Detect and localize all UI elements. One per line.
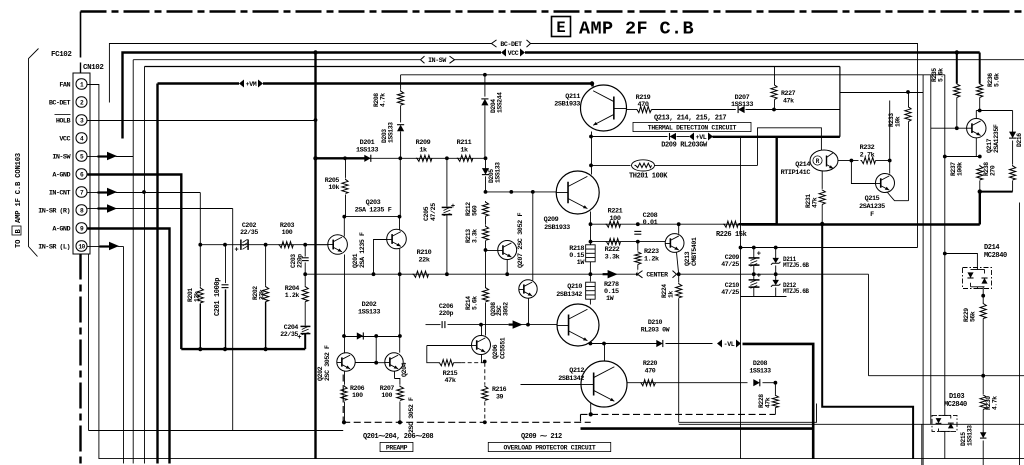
resistor R231 47k — [821, 171, 823, 189]
pin 8 IN-SR (R) — [76, 205, 87, 215]
wire y247.5 rail — [741, 247, 918, 249]
svg-text:1SS133: 1SS133 — [731, 101, 753, 109]
transistor Q210 2SB1342 — [557, 304, 599, 346]
wire Q211 collector thick — [591, 84, 593, 87]
wire mid vertical x740.5 — [740, 137, 742, 459]
wire Q212 output row — [628, 382, 748, 384]
transistor Q204 2SC3052F — [385, 353, 403, 371]
svg-text:R206: R206 — [350, 385, 365, 392]
svg-text:2SC 3052 F: 2SC 3052 F — [324, 345, 331, 381]
wire R221 rail — [591, 223, 742, 225]
svg-text:D216: D216 — [1016, 133, 1023, 147]
svg-text:C210: C210 — [725, 282, 740, 289]
diode D202 1SS133 — [345, 336, 400, 338]
wire input node line — [199, 244, 328, 246]
svg-text:47k: 47k — [783, 98, 794, 105]
pin 6 A-GND — [76, 169, 87, 179]
svg-text:AMP 2F C.B: AMP 2F C.B — [579, 19, 694, 40]
wire +VL box right edge — [839, 67, 841, 137]
resistor R232 2.7k — [850, 159, 854, 163]
wire R237/R238 join thick — [980, 191, 1013, 193]
wire D203 to Q203 emitter line — [399, 158, 401, 216]
svg-text:+: + — [757, 273, 761, 281]
ground bus — [181, 348, 305, 350]
resistor R211 1k — [457, 155, 473, 161]
wire Q213 collector up — [678, 224, 680, 234]
resistor R219 470 — [637, 106, 652, 112]
svg-text:Q209: Q209 — [544, 216, 559, 224]
wire Q207 emitter down — [506, 260, 508, 275]
transistor Q207 2SC3052F — [498, 241, 517, 260]
pin 7 IN-CNT — [76, 187, 87, 197]
wire pin6 A-GND thick — [88, 175, 182, 350]
resistor R224 1k — [678, 274, 680, 282]
resistor R206 100 — [344, 372, 346, 385]
svg-text:22/35: 22/35 — [280, 331, 298, 338]
net label IN-SW — [420, 55, 454, 64]
resistor R233 10k — [908, 93, 910, 107]
connector CN102 body — [73, 73, 90, 254]
wire output bus thick y224 — [742, 223, 980, 225]
capacitor C209 47/25 — [753, 248, 755, 259]
svg-text:+VM: +VM — [246, 81, 257, 88]
svg-text:IN-SW: IN-SW — [52, 154, 71, 162]
wire pin8 IN-SR R arrow — [98, 207, 109, 209]
resistor R226 15k — [723, 221, 738, 227]
wire Q215 emitter to R233 col — [888, 193, 909, 201]
wire top rail y74.8 — [401, 74, 945, 76]
transistor Q213 CMBT5401 — [665, 234, 684, 253]
svg-text:Q217: Q217 — [986, 138, 993, 153]
capacitor C210 47/25 — [753, 274, 755, 280]
svg-text:Q212: Q212 — [569, 367, 584, 375]
svg-text:10: 10 — [78, 243, 85, 250]
svg-text:1SS133: 1SS133 — [495, 162, 502, 183]
svg-text:FAN: FAN — [59, 82, 70, 90]
svg-text:F: F — [870, 211, 874, 219]
svg-text:470: 470 — [637, 101, 648, 109]
svg-text:OVERLOAD PROTECTOR CIRCUIT: OVERLOAD PROTECTOR CIRCUIT — [504, 444, 596, 451]
net label +VM — [239, 79, 263, 88]
svg-text:100: 100 — [609, 215, 620, 223]
pin 1 FAN — [76, 79, 87, 89]
boxed label OVERLOAD PROTECTOR CIRCUIT — [488, 442, 610, 451]
svg-text:FC102: FC102 — [51, 51, 72, 59]
wire Q207 base — [486, 250, 498, 252]
wire Q209 collector — [591, 172, 593, 175]
svg-text:47k: 47k — [765, 397, 772, 408]
wire Q209 emitter down — [590, 212, 592, 245]
wire Q208 collector up — [532, 192, 534, 281]
wire Q211 base row — [627, 109, 637, 111]
svg-text:MC2840: MC2840 — [944, 401, 967, 409]
wire Q209 base line — [486, 191, 557, 193]
svg-text:-VL: -VL — [724, 341, 735, 348]
svg-text:2SB1933: 2SB1933 — [544, 224, 570, 232]
wire Q206 base — [427, 345, 472, 347]
svg-text:1.2k: 1.2k — [285, 292, 300, 299]
svg-text:2SB1342: 2SB1342 — [556, 291, 582, 299]
resistor R209 1k — [416, 155, 432, 161]
svg-text:47/25: 47/25 — [721, 261, 739, 268]
svg-text:B: B — [15, 229, 23, 234]
pin 10 IN-SR (L) — [76, 241, 87, 251]
svg-text:IN-SR (R): IN-SR (R) — [38, 208, 70, 216]
svg-text:D208: D208 — [753, 360, 768, 367]
capacitor C204 22/35 — [301, 325, 311, 327]
capacitor C203 220p — [304, 245, 306, 257]
resistor R214 5.6k — [485, 251, 487, 288]
wire R237 top rail — [945, 156, 980, 158]
resistor R207 100 — [394, 371, 396, 378]
svg-text:100: 100 — [282, 229, 293, 236]
wire Q217 collector — [975, 138, 977, 157]
bottom wire FAN run — [88, 85, 1024, 459]
svg-text:22/35: 22/35 — [240, 229, 258, 236]
svg-text:1SS133: 1SS133 — [388, 122, 395, 143]
wire Q201 collector down — [344, 255, 346, 354]
diode D201 1SS133 — [364, 155, 371, 162]
svg-text:RL203 0W: RL203 0W — [641, 327, 670, 334]
resistor R221 100 — [606, 221, 621, 227]
bottom inner line — [88, 255, 90, 431]
svg-text:560: 560 — [472, 205, 479, 216]
diode D210 RL203 0W — [656, 340, 663, 347]
svg-text:+: + — [757, 251, 761, 259]
svg-text:Q213: Q213 — [684, 251, 691, 266]
wire emitter rail Q201/Q203 — [344, 216, 399, 218]
wire -VL thick loop — [743, 344, 814, 459]
svg-text:CC5551: CC5551 — [500, 337, 507, 359]
resistor R203 100 — [278, 242, 293, 248]
svg-text:270: 270 — [990, 165, 997, 176]
svg-text:BC-DET: BC-DET — [49, 100, 71, 108]
wire Q217 emitter top — [975, 111, 977, 119]
svg-text:220p: 220p — [439, 310, 454, 317]
wire thick output drop — [822, 225, 913, 459]
resistor R237 100k — [977, 165, 983, 180]
svg-text:R204: R204 — [285, 285, 300, 292]
resistor R204 1.2k — [304, 274, 306, 285]
wire Q212 base — [521, 384, 582, 386]
svg-text:VCC: VCC — [59, 136, 70, 144]
resistor R213 3.3k — [482, 225, 488, 240]
svg-text:100: 100 — [352, 392, 363, 399]
svg-text:Q202: Q202 — [317, 366, 324, 381]
transistor Q217 2SA1235F — [967, 119, 986, 138]
svg-text:IN-SR (L): IN-SR (L) — [38, 244, 70, 252]
resistor R216 39 dashed leg — [484, 363, 486, 385]
svg-text:MC2840: MC2840 — [984, 252, 1007, 260]
resistor R210 22k — [413, 271, 429, 277]
svg-text:47/25: 47/25 — [430, 203, 437, 221]
resistor R218 0.15 1W box — [586, 245, 596, 262]
wire Q214 to R232 rail — [838, 160, 852, 162]
svg-text:3.3k: 3.3k — [605, 254, 620, 262]
svg-text:Q207 2SC 3052 F: Q207 2SC 3052 F — [517, 212, 525, 268]
svg-text:3.3k: 3.3k — [472, 229, 479, 243]
diode D205 1SS133 — [485, 158, 487, 169]
svg-text:R205: R205 — [325, 177, 340, 184]
svg-text:Q210: Q210 — [567, 283, 582, 291]
wire pin7 IN-CNT arrow — [98, 191, 109, 193]
title box E — [552, 17, 571, 37]
resistor R202 33k — [265, 245, 267, 286]
wire Q212 collector down — [590, 403, 592, 415]
capacitor C206 220p — [426, 324, 441, 326]
CENTER junction — [589, 262, 591, 282]
svg-text:100: 100 — [381, 392, 392, 399]
svg-text:RTIP141C: RTIP141C — [781, 169, 811, 177]
wire Q215 base — [851, 161, 875, 184]
svg-text:100k: 100k — [957, 162, 964, 176]
svg-text:TO: TO — [15, 239, 23, 248]
wire Q211 emitter down — [591, 132, 593, 172]
svg-text:47k: 47k — [812, 197, 819, 208]
svg-text:VCC: VCC — [508, 50, 519, 57]
wire VCC drop thick — [314, 53, 316, 459]
svg-text:1.2k: 1.2k — [644, 256, 659, 264]
svg-text:Q209 ⁓ 212: Q209 ⁓ 212 — [521, 433, 562, 441]
arrow CENTER — [603, 273, 609, 275]
dual diode D214 MC2840 — [963, 268, 992, 289]
wire right edge vertical — [1019, 203, 1021, 465]
wire Q202-Q204 base link — [376, 337, 385, 363]
capacitor C201 1000p — [225, 245, 227, 283]
svg-text:22k: 22k — [418, 257, 429, 265]
svg-text:C204: C204 — [284, 324, 299, 331]
svg-text:12k: 12k — [194, 291, 201, 302]
svg-text:R216: R216 — [492, 386, 507, 393]
wire +VM bus thick — [158, 82, 593, 84]
wire Q208 emitter down — [528, 298, 530, 324]
border corner vertical — [80, 12, 82, 58]
svg-text:Q206: Q206 — [492, 344, 499, 359]
wire Q203 base — [374, 240, 387, 275]
svg-text:1SS244: 1SS244 — [497, 92, 504, 113]
wire top right network — [922, 75, 924, 465]
svg-text:10k: 10k — [895, 116, 902, 127]
wire Q206 emitter — [481, 355, 483, 363]
resistor R222 3.3k — [606, 239, 621, 245]
svg-text:47k: 47k — [444, 377, 455, 385]
svg-text:1SS133: 1SS133 — [967, 425, 974, 446]
svg-text:IN-SW: IN-SW — [428, 57, 446, 64]
wire VCC bus thick — [123, 53, 980, 139]
svg-text:1k: 1k — [460, 147, 468, 155]
wire bus line4 — [145, 66, 840, 68]
svg-text:R220: R220 — [643, 360, 658, 367]
svg-text:D209 RL203GW: D209 RL203GW — [661, 142, 708, 150]
svg-text:A-GND: A-GND — [52, 226, 70, 234]
svg-text:0.01: 0.01 — [643, 219, 658, 227]
pin 2 BC-DET — [76, 97, 87, 107]
transistor Q201 2SA1235 — [328, 235, 348, 255]
svg-text:D103: D103 — [949, 393, 964, 401]
wire D214 entry — [945, 254, 978, 269]
svg-text:R227: R227 — [781, 90, 796, 97]
wire block bottom — [741, 296, 787, 298]
wire y422.3 inner — [679, 404, 817, 423]
wire +VL thick — [713, 136, 840, 138]
svg-text:33k: 33k — [259, 289, 266, 300]
page top dash-dot border — [81, 10, 1024, 12]
wire D210 rail — [590, 343, 656, 345]
svg-text:MTZJ5.6B: MTZJ5.6B — [783, 288, 809, 295]
svg-text:CMBT5401: CMBT5401 — [691, 237, 698, 266]
svg-text:5.6k: 5.6k — [472, 296, 479, 310]
svg-text:2.7k: 2.7k — [860, 152, 875, 160]
svg-text:Q204: Q204 — [401, 362, 408, 377]
svg-text:1k: 1k — [668, 291, 675, 298]
svg-text:D214: D214 — [984, 244, 999, 252]
net label BC-DET — [492, 39, 531, 48]
svg-text:TH201 100K: TH201 100K — [629, 173, 668, 181]
left dash-dot border — [79, 254, 81, 465]
wire Q212 emitter up — [604, 344, 606, 362]
bracket to AMP 1F — [29, 49, 39, 257]
transistor Q214 RTIP141C — [810, 150, 838, 171]
svg-text:R: R — [816, 158, 820, 165]
svg-text:HOLB: HOLB — [56, 118, 71, 126]
svg-text:CN102: CN102 — [83, 64, 104, 72]
svg-text:220p: 220p — [297, 254, 304, 268]
transistor Q211 2SB1933 — [581, 85, 627, 131]
transistor Q206 CC5551 — [472, 336, 491, 355]
svg-text:R207: R207 — [380, 385, 395, 392]
transistor Q208 2SC3052F — [519, 280, 537, 298]
net label VCC — [501, 48, 525, 57]
resistor R227 47k — [774, 67, 776, 85]
svg-text:2SA1235: 2SA1235 — [859, 203, 885, 211]
resistor R236 5.6k — [979, 53, 981, 84]
svg-text:R203: R203 — [280, 222, 295, 229]
svg-text:56k: 56k — [970, 311, 977, 322]
pin 3 HOLB — [76, 115, 87, 125]
arrow to Q210 base — [509, 324, 514, 326]
diode D207 1SS133 — [738, 106, 745, 113]
svg-text:+VL: +VL — [696, 134, 707, 141]
wire Q203 collector down — [399, 249, 401, 353]
wire to R229 — [982, 286, 984, 302]
svg-text:+: + — [235, 247, 239, 255]
boxed label THERMAL DETECTION CIRCUIT — [633, 122, 751, 131]
svg-text:IN-CNT: IN-CNT — [49, 190, 71, 198]
svg-text:E: E — [556, 19, 565, 37]
svg-text:2SB1933: 2SB1933 — [554, 101, 580, 109]
svg-text:R226 15k: R226 15k — [716, 231, 747, 239]
wire Q217 base — [931, 127, 967, 129]
wire y375.7 rail — [869, 375, 1024, 377]
boxed label PREAMP — [380, 442, 413, 451]
pin 5 IN-SW — [76, 151, 87, 161]
wire IN-SW bus — [133, 59, 1024, 61]
svg-text:470: 470 — [645, 368, 656, 375]
wire y92 rail — [840, 92, 923, 94]
diode D215 1SS133 — [980, 432, 986, 438]
svg-text:39: 39 — [496, 394, 504, 401]
svg-text:2SB1342: 2SB1342 — [558, 375, 584, 383]
resistor R235 5.6k — [955, 50, 959, 54]
svg-text:47/25: 47/25 — [721, 289, 739, 296]
svg-text:1k: 1k — [419, 147, 427, 155]
zener D211 MTZJ5.6B — [775, 248, 777, 259]
svg-text:5.6k: 5.6k — [994, 73, 1001, 87]
capacitor C202 22/35 — [240, 240, 242, 250]
resistor R212 560 — [482, 201, 488, 216]
wire BC-DET bus — [109, 44, 917, 248]
transistor Q209 2SB1933 — [556, 171, 599, 214]
wire pin10 IN-SR L arrow — [100, 245, 111, 247]
pin 9 A-GND — [76, 223, 87, 233]
capacitor C205 47/25 — [446, 158, 448, 206]
diode D216 — [1012, 111, 1014, 133]
diode D209 RL203GW — [592, 136, 668, 138]
transistor Q203 — [387, 229, 407, 249]
dashed overload box bottom — [580, 414, 582, 422]
svg-text:1SS133: 1SS133 — [358, 309, 380, 317]
wire y424.3 — [679, 423, 1024, 425]
diode D203 1SS133 — [397, 125, 404, 132]
diode D208 1SS133 — [753, 379, 760, 386]
wire pin3 HOLB — [88, 120, 316, 122]
wire Q210 emitter down — [589, 342, 591, 344]
svg-text:1SS133: 1SS133 — [356, 147, 378, 155]
wire R226 thick to +VL — [739, 223, 777, 225]
zener D212 MTZJ5.6B — [775, 274, 777, 280]
svg-text:Q215: Q215 — [865, 195, 880, 203]
svg-text:Q214: Q214 — [795, 161, 810, 169]
resistor R215 47k — [427, 346, 439, 363]
vertical note TO B AMP 1F C.B CON103 — [12, 153, 23, 248]
resistor R230 4.7k — [982, 376, 984, 394]
wire pin9 A-GND thick — [88, 229, 170, 464]
svg-text:2SA1235F: 2SA1235F — [993, 124, 1000, 153]
svg-text:C201 1000p: C201 1000p — [214, 278, 222, 316]
wire CENTER rail — [305, 273, 868, 275]
transistor Q215 2SA1235F — [876, 174, 895, 193]
svg-text:BC-DET: BC-DET — [500, 41, 522, 48]
resistor R223 1.2k — [637, 242, 639, 251]
resistor R220 470 — [641, 380, 656, 386]
dashed preamp box bottom — [343, 421, 591, 423]
pin 4 VCC — [76, 133, 87, 143]
svg-text:2SC 3052 F: 2SC 3052 F — [408, 397, 415, 433]
svg-text:+: + — [451, 203, 455, 211]
svg-text:CENTER: CENTER — [646, 272, 668, 279]
svg-text:Q213, 214, 215, 217: Q213, 214, 215, 217 — [654, 115, 726, 123]
svg-text:2SA 1235 F: 2SA 1235 F — [359, 232, 366, 268]
transistor Q202 2SC3052F — [337, 353, 355, 371]
wire Q213 emitter down — [677, 253, 679, 275]
svg-text:MTZJ5.6B: MTZJ5.6B — [783, 262, 809, 269]
wire R222 rail — [591, 241, 666, 243]
resistor R229 56k — [980, 303, 986, 319]
svg-text:4.7k: 4.7k — [992, 396, 999, 410]
svg-text:2SA 1235 F: 2SA 1235 F — [355, 207, 392, 215]
svg-text:A-GND: A-GND — [52, 172, 70, 180]
resistor R205 10k — [343, 156, 347, 160]
thermistor TH201 100K — [592, 164, 631, 166]
resistor R201 12k — [199, 245, 201, 287]
svg-text:3052: 3052 — [503, 302, 510, 316]
svg-text:D210: D210 — [648, 319, 663, 326]
svg-text:C202: C202 — [242, 222, 257, 229]
transistor Q212 2SB1342 — [581, 361, 627, 407]
svg-text:5.6k: 5.6k — [938, 68, 945, 82]
wire Q206 collector to base line — [481, 325, 483, 336]
resistor R228 47k — [774, 383, 776, 395]
